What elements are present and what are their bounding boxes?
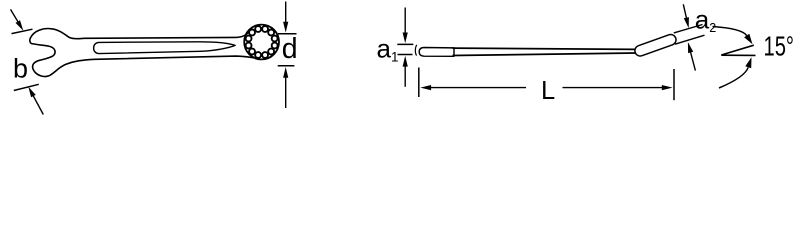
dimension b top arrow [11, 9, 19, 23]
L left extension line [418, 68, 420, 98]
15 degree horizontal line [721, 54, 755, 56]
dimension d top tick [278, 33, 297, 35]
L dimension left arrow [429, 87, 526, 89]
a2 lower extension line [675, 35, 705, 44]
svg-text:d: d [282, 33, 298, 65]
svg-text:15°: 15° [764, 31, 795, 62]
a1 bottom tick [398, 54, 413, 56]
a2 upper extension line [674, 25, 703, 33]
dimension b top extension tick [12, 29, 33, 33]
svg-text:L: L [541, 77, 555, 105]
side view shaft bottom line [453, 53, 638, 56]
L dimension right arrow [563, 87, 664, 89]
dimension d bottom arrow [285, 76, 287, 108]
15 degree angled line [721, 45, 754, 55]
svg-text:a1: a1 [377, 33, 399, 64]
a2 bottom arrow [690, 51, 695, 71]
shaft recess oval [94, 42, 236, 54]
ring 12-point socket profile [246, 26, 278, 58]
svg-text:b: b [13, 54, 28, 84]
a1 top arrow [404, 8, 406, 35]
a1 top tick [397, 43, 413, 45]
15 degree lower curved arrow [719, 67, 748, 88]
15 degree upper curved arrow [713, 27, 747, 36]
dimension b bottom arrow [33, 94, 44, 114]
side view head plate [419, 48, 454, 57]
L right extension line [673, 69, 675, 100]
side view ring boss [635, 34, 676, 56]
a1 bottom arrow [404, 65, 406, 87]
ring outer circle [244, 25, 279, 60]
a2 top arrow [683, 4, 687, 19]
wrench top view outline [30, 29, 254, 77]
svg-text:a2: a2 [695, 5, 716, 35]
side view jaw edge arc [415, 45, 416, 56]
side view shaft top line [453, 48, 638, 49]
dimension d top arrow [285, 2, 287, 24]
dimension b bottom extension tick [14, 84, 39, 90]
dimension d bottom tick [278, 65, 295, 67]
